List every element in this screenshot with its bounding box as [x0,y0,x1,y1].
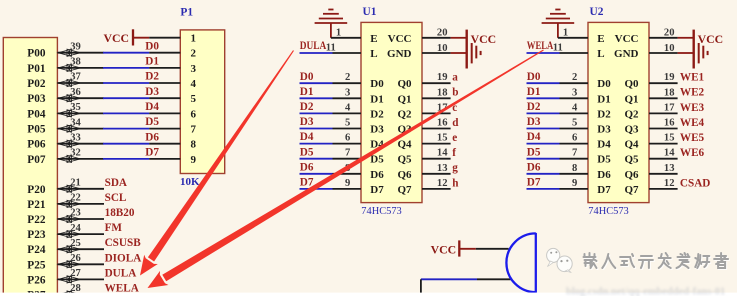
P1 pin 9 (lead + number) [149,154,196,166]
svg-text:a: a [452,72,458,84]
U2 pin 7 lead [560,148,589,159]
svg-text:13: 13 [437,163,448,174]
net label f (at U1 pin 14) [452,147,456,159]
svg-text:P07: P07 [27,154,46,166]
svg-text:D1: D1 [597,93,610,105]
svg-text:VCC: VCC [698,32,724,46]
svg-text:D0: D0 [370,78,384,90]
net label D0 (at U2) [527,71,541,83]
svg-text:D7: D7 [370,184,384,196]
net label D3 (at U1) [300,116,314,128]
wire net D1 from P01 to P1 pin 3 [103,67,149,69]
svg-text:27: 27 [70,268,81,279]
net label D6 (at U1) [300,161,314,173]
U1 pin 16 lead + number [422,118,451,129]
net label D7 (at U1) [300,177,314,189]
U2 pin 1 lead [558,28,588,39]
svg-text:D1: D1 [145,56,159,68]
pin 34 P05 (IO pin, lead + number + name) [27,117,103,135]
svg-text:D5: D5 [370,154,384,166]
net label WELA [105,283,139,295]
svg-text:20: 20 [664,28,675,39]
svg-text:Q2: Q2 [397,108,412,120]
svg-text:WE3: WE3 [680,102,705,114]
svg-text:9: 9 [572,178,577,189]
watermark text 嵌入式开发爱好者 (drawn strokes) [584,253,730,269]
svg-text:16: 16 [664,118,675,129]
svg-text:P23: P23 [27,229,46,241]
svg-text:WE6: WE6 [680,147,705,159]
resistor network P1 body [180,30,224,174]
svg-text:P22: P22 [27,214,46,226]
svg-text:CSUSB: CSUSB [105,237,142,249]
svg-text:P21: P21 [27,199,46,211]
P1 pin 4 (lead + number) [149,78,196,90]
svg-text:14: 14 [437,148,448,159]
svg-text:35: 35 [70,102,81,113]
net label DULA [105,267,137,279]
ground (at U2 pin 1) [542,10,575,38]
svg-text:D2: D2 [300,101,314,113]
svg-text:Q6: Q6 [624,169,639,181]
svg-text:6: 6 [572,133,577,144]
svg-text:P06: P06 [27,139,46,151]
wire U1 pin 20 to VCC [451,37,466,39]
svg-text:b: b [452,87,458,99]
svg-text:P20: P20 [27,184,46,196]
svg-text:VCC: VCC [615,33,639,45]
U2 pin 16 lead + number [649,118,678,129]
svg-text:6: 6 [345,133,350,144]
wire U1 pin 10 to GND [451,52,466,54]
net label e (at U1 pin 15) [452,132,457,144]
wire D4 to U1 pin 6 [300,143,333,145]
white strip below schematic crop [0,293,737,296]
svg-text:P26: P26 [27,274,46,286]
net label WE1 (at U2 pin 19) [680,72,705,84]
svg-text:P00: P00 [27,48,46,60]
U1 pin 2 lead [333,72,362,83]
net label D1 (at U1) [300,86,314,98]
net label WE6 (at U2 pin 14) [680,147,705,159]
wire net D5 from P05 to P1 pin 7 [103,128,149,130]
svg-text:22: 22 [70,193,81,204]
net label c (at U1 pin 17) [452,102,457,114]
svg-text:5: 5 [345,118,350,129]
pin 36 P03 (IO pin, lead + number + name) [27,87,103,105]
svg-text:12: 12 [664,178,675,189]
U1 pin 6 lead [333,133,362,144]
net label WE2 (at U2 pin 18) [680,87,705,99]
svg-text:Q7: Q7 [624,184,639,196]
svg-text:WELA: WELA [527,40,554,52]
op-amp — designator U2 [590,6,604,18]
svg-text:7: 7 [572,148,578,159]
svg-text:D6: D6 [370,169,384,181]
svg-text:D7: D7 [527,177,541,189]
net label D2 (at P1) [145,71,159,83]
U2 pin 17 lead + number [649,102,678,113]
svg-text:8: 8 [191,139,197,151]
U2 pin 5 lead [560,118,589,129]
latch U2 74HC573 body [588,22,649,202]
U2 pin 15 lead + number [649,133,678,144]
U2 pin 2 lead [560,72,589,83]
buzzer LS1 top pin lead [476,248,509,250]
svg-text:P04: P04 [27,108,46,120]
svg-text:74HC573: 74HC573 [361,206,401,217]
svg-text:2: 2 [572,72,577,83]
U2 pin 14 lead + number [649,148,678,159]
wire D7 to U2 pin 9 [527,188,560,190]
svg-text:D4: D4 [527,131,541,143]
svg-text:WE1: WE1 [680,72,705,84]
net label h (at U1 pin 12) [452,177,459,189]
pin 26 P25 (IO pin, lead + number + name) [27,253,104,271]
svg-text:e: e [452,132,457,144]
svg-text:16: 16 [437,118,448,129]
net label d (at U1 pin 16) [452,117,459,129]
net label D5 (at U1) [300,146,314,158]
svg-text:17: 17 [664,102,675,113]
svg-text:D7: D7 [145,147,159,159]
svg-text:WE5: WE5 [680,132,705,144]
pin 24 P23 (IO pin, lead + number + name) [27,223,104,241]
svg-text:Q6: Q6 [397,169,412,181]
net label b (at U1 pin 18) [452,87,458,99]
svg-text:D5: D5 [527,146,541,158]
svg-text:Q1: Q1 [624,93,638,105]
pin 39 P00 (IO pin, lead + number + name) [27,41,103,59]
pin 37 P02 (IO pin, lead + number + name) [27,72,103,90]
net label WE5 (at U2 pin 15) [680,132,705,144]
net label D6 (at U2) [527,161,541,173]
svg-text:f: f [452,147,456,159]
svg-text:E: E [370,33,377,45]
P1 pin 6 (lead + number) [149,108,196,120]
wire net D3 from P03 to P1 pin 5 [103,97,149,99]
U1 pin 3 lead [333,87,362,98]
svg-text:Q4: Q4 [624,139,639,151]
svg-text:21: 21 [70,178,81,189]
P1 pin 1 (lead + number) [149,33,196,45]
svg-text:D3: D3 [597,124,611,136]
svg-text:4: 4 [191,78,197,90]
U2 pin 13 lead + number [649,163,678,174]
net label D4 (at U1) [300,131,314,143]
power port VCC (buzzer) [431,240,476,256]
IC U? (MCU port section) body [3,38,57,296]
net label SCL [105,192,127,204]
U2 pin 19 lead + number [649,72,678,83]
svg-text:26: 26 [70,253,81,264]
svg-text:9: 9 [345,178,350,189]
svg-text:FM: FM [105,222,123,234]
svg-text:24: 24 [70,223,81,234]
net label D0 (at U1) [300,71,314,83]
svg-text:WE2: WE2 [680,87,705,99]
net label DULA (at U1 pin 11) [300,40,327,52]
wire D3 to U2 pin 5 [527,128,560,130]
wire net D6 from P06 to P1 pin 8 [103,143,149,145]
svg-text:blog.csdn.net/qq-embedded-fans: blog.csdn.net/qq-embedded-fans-01 [566,287,725,296]
svg-text:1: 1 [191,33,197,45]
net label D4 (at P1) [145,101,159,113]
svg-text:D6: D6 [300,161,314,173]
net label WE3 (at U2 pin 17) [680,102,705,114]
designator P1 [180,6,193,18]
net label 18B20 [105,207,135,219]
svg-text:D4: D4 [597,139,611,151]
svg-text:D1: D1 [527,86,541,98]
svg-text:P03: P03 [27,93,46,105]
svg-text:D3: D3 [300,116,314,128]
svg-text:L: L [370,48,377,60]
svg-text:5: 5 [572,118,577,129]
svg-text:D0: D0 [597,78,611,90]
svg-text:2: 2 [191,48,197,60]
U2 pin 11 lead [553,42,588,53]
pin 28 P27 (IO pin, lead + number + name) [27,283,104,296]
svg-text:39: 39 [70,41,81,52]
svg-text:3: 3 [345,87,350,98]
svg-text:32: 32 [70,148,81,159]
pin 38 P01 (IO pin, lead + number + name) [27,57,103,75]
wire D5 to U1 pin 7 [300,158,333,160]
wire D1 to U1 pin 3 [300,97,333,99]
svg-text:WE4: WE4 [680,117,705,129]
svg-text:E: E [597,33,604,45]
buzzer LS1 body (half-circle) [506,233,535,293]
power port VCC (right of U1) [467,30,496,69]
svg-text:D6: D6 [527,161,541,173]
pin 25 P24 (IO pin, lead + number + name) [27,238,104,256]
U1 pin 12 lead + number [422,178,451,189]
net label D1 (at U2) [527,86,541,98]
svg-text:33: 33 [70,132,81,143]
svg-text:D3: D3 [527,116,541,128]
wire D6 to U2 pin 8 [527,173,560,175]
U2 pin 20 lead [649,28,678,39]
U2 inside pin names [597,33,639,196]
svg-text:GND: GND [614,48,639,60]
net label WELA (at U2 pin 11) [527,40,554,52]
svg-text:VCC: VCC [103,31,129,45]
pin 22 P21 (IO pin, lead + number + name) [27,193,104,211]
svg-text:CSAD: CSAD [680,177,710,189]
svg-text:U1: U1 [363,6,377,18]
svg-text:Q0: Q0 [397,78,412,90]
svg-text:SCL: SCL [105,192,127,204]
wire D0 to U2 pin 2 [527,82,560,84]
wire D1 to U2 pin 3 [527,97,560,99]
svg-text:L: L [597,48,604,60]
P1 pin 2 (lead + number) [149,48,196,60]
buzzer LS1 bottom pin lead [477,278,511,280]
power port VCC (right of U2) [694,30,723,69]
annotation arrow (from DULA at U1 to DULA pin) [140,50,294,275]
svg-text:GND: GND [387,48,412,60]
U1 pin 20 lead [422,28,451,39]
svg-text:D6: D6 [145,131,159,143]
U1 pin 1 lead [331,28,361,39]
U1 pin 7 lead [333,148,362,159]
svg-text:D1: D1 [370,93,383,105]
wire net D2 from P02 to P1 pin 4 [103,82,149,84]
svg-text:DULA: DULA [105,267,137,279]
svg-text:D4: D4 [300,131,314,143]
svg-text:VCC: VCC [431,243,457,257]
net label D0 (at P1) [145,40,159,52]
U2 pin 8 lead [560,163,589,174]
value 74HC573 (U1) [361,206,401,217]
net label D4 (at U2) [527,131,541,143]
svg-text:11: 11 [326,42,336,53]
svg-text:20: 20 [437,28,448,39]
net label g (at U1 pin 13) [452,162,458,174]
U1 pin 17 lead + number [422,102,451,113]
U1 pin 14 lead + number [422,148,451,159]
U2 pin 9 lead [560,178,589,189]
ground (at U1 pin 1) [315,10,348,38]
P1 pin 7 (lead + number) [149,124,196,136]
P1 pin 5 (lead + number) [149,93,196,105]
pin 35 P04 (IO pin, lead + number + name) [27,102,103,120]
svg-text:19: 19 [664,72,675,83]
svg-text:8: 8 [572,163,577,174]
wire U2 pin 10 to GND [678,52,693,54]
svg-text:Q2: Q2 [624,108,639,120]
svg-text:h: h [452,177,459,189]
svg-text:38: 38 [70,57,81,68]
U1 pin 9 lead [333,178,362,189]
svg-text:28: 28 [70,283,81,294]
svg-text:37: 37 [70,72,81,83]
svg-text:18B20: 18B20 [105,207,135,219]
svg-text:14: 14 [664,148,675,159]
annotation arrow (from WELA at U2 to WELA pin) [148,50,544,289]
U1 pin 18 lead + number [422,87,451,98]
svg-text:D3: D3 [370,124,384,136]
svg-text:15: 15 [437,133,448,144]
net label DIOLA [105,252,142,264]
U1 pin 8 lead [333,163,362,174]
net label D5 (at U2) [527,146,541,158]
svg-text:Q5: Q5 [397,154,412,166]
svg-text:Q1: Q1 [397,93,411,105]
net label D6 (at P1) [145,131,159,143]
svg-text:36: 36 [70,87,81,98]
net label D1 (at P1) [145,56,159,68]
svg-text:13: 13 [664,163,675,174]
svg-text:23: 23 [70,208,81,219]
svg-text:19: 19 [437,72,448,83]
svg-text:11: 11 [553,42,563,53]
wire D2 to U2 pin 4 [527,112,560,114]
svg-text:P25: P25 [27,259,46,271]
svg-text:2: 2 [345,72,350,83]
svg-text:34: 34 [70,117,81,128]
pin 32 P07 (IO pin, lead + number + name) [27,148,103,166]
net label a (at U1 pin 19) [452,72,458,84]
wire D6 to U1 pin 8 [300,173,333,175]
wire D4 to U2 pin 6 [527,143,560,145]
svg-text:Q3: Q3 [624,124,639,136]
svg-text:3: 3 [572,87,577,98]
svg-text:D4: D4 [145,101,159,113]
P1 pin 3 (lead + number) [149,63,196,75]
svg-text:D7: D7 [597,184,611,196]
wire net D7 from P07 to P1 pin 9 [103,158,149,160]
U2 pin 18 lead + number [649,87,678,98]
svg-text:7: 7 [345,148,351,159]
ground (rotated, U1 pin 10) [472,43,481,63]
svg-text:10: 10 [437,43,448,54]
svg-text:D0: D0 [527,71,541,83]
svg-text:5: 5 [191,93,197,105]
svg-text:Q5: Q5 [624,154,639,166]
logo icon (wechat bubbles watermark) [547,248,573,272]
svg-text:P05: P05 [27,124,46,136]
svg-text:D2: D2 [527,101,541,113]
pin 21 P20 (IO pin, lead + number + name) [27,178,104,196]
net label CSUSB [105,237,142,249]
value 10K [180,176,200,188]
pin 33 P06 (IO pin, lead + number + name) [27,132,103,150]
svg-text:18: 18 [437,87,448,98]
svg-text:P1: P1 [180,6,193,18]
svg-text:Q0: Q0 [624,78,639,90]
ground (rotated, U2 pin 10) [699,43,708,63]
svg-text:9: 9 [191,154,197,166]
svg-text:10: 10 [664,43,675,54]
net label CSAD (at U2 pin 12) [680,177,710,189]
wire net D4 from P04 to P1 pin 6 [103,112,149,114]
U1 pin 4 lead [333,102,362,113]
net label FM [105,222,123,234]
pin 23 P22 (IO pin, lead + number + name) [27,208,104,226]
net label D7 (at U2) [527,177,541,189]
net label SDA [105,177,127,189]
wire D5 to U2 pin 7 [527,158,560,160]
svg-text:D5: D5 [300,146,314,158]
wire to buzzer bottom pin [421,278,477,280]
net label D5 (at P1) [145,116,159,128]
P1 pin 8 (lead + number) [149,139,196,151]
svg-text:1: 1 [336,28,341,39]
svg-text:g: g [452,162,458,174]
svg-text:D3: D3 [145,86,159,98]
svg-text:4: 4 [345,102,351,113]
svg-text:18: 18 [664,87,675,98]
svg-text:6: 6 [191,108,197,120]
wire net D0 from P00 to P1 pin 2 [103,52,149,54]
svg-text:D0: D0 [300,71,314,83]
wire D2 to U1 pin 4 [300,112,333,114]
svg-text:P01: P01 [27,63,46,75]
wire DULA to U1 pin 11 [300,52,333,54]
svg-text:D1: D1 [300,86,314,98]
svg-text:12: 12 [437,178,448,189]
svg-text:VCC: VCC [388,33,412,45]
svg-text:P24: P24 [27,244,46,256]
wire U2 pin 20 to VCC [678,37,693,39]
U2 pin 10 lead [649,43,678,54]
svg-text:D5: D5 [597,154,611,166]
svg-text:4: 4 [572,102,578,113]
net label D3 (at U2) [527,116,541,128]
svg-text:D2: D2 [145,71,159,83]
